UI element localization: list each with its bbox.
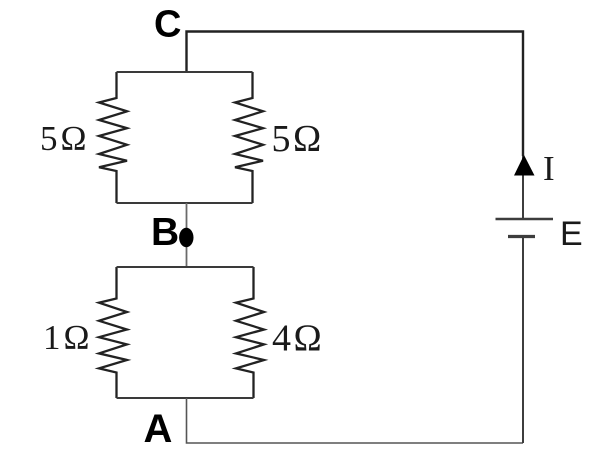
- wire upper box top rail: [117, 71, 253, 73]
- svg-text:1Ω: 1Ω: [43, 318, 93, 357]
- wire battery bottom vertical: [522, 237, 524, 444]
- battery E short plate: [508, 235, 535, 238]
- battery E long plate: [496, 218, 554, 221]
- svg-text:I: I: [543, 149, 555, 188]
- current arrow I: [514, 155, 535, 176]
- svg-text:4Ω: 4Ω: [272, 318, 324, 360]
- node B junction dot: [179, 228, 193, 247]
- wire upper box bottom rail: [117, 202, 253, 204]
- resistor R1 5ohm left upper: top stub, zigzag, bottom stub: [99, 72, 127, 203]
- resistor R2 5ohm right upper: [235, 72, 263, 203]
- svg-text:E: E: [560, 215, 583, 253]
- svg-text:5Ω: 5Ω: [272, 118, 324, 160]
- wire lower box bottom rail: [117, 397, 254, 399]
- wire battery top vertical: [522, 156, 524, 219]
- wire between boxes through node B: [186, 203, 188, 267]
- svg-text:B: B: [151, 211, 179, 254]
- svg-text:5Ω: 5Ω: [40, 119, 90, 158]
- wire A to battery bottom: [187, 398, 524, 443]
- wire top C to battery: [187, 32, 524, 157]
- svg-text:A: A: [144, 407, 173, 451]
- resistor R4 4ohm right lower: [236, 267, 264, 398]
- svg-text:C: C: [154, 4, 181, 46]
- wire lower box top rail: [117, 266, 254, 268]
- resistor R3 1ohm left lower: [99, 267, 127, 398]
